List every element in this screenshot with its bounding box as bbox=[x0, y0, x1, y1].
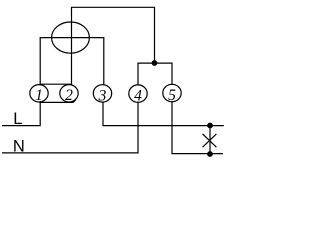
svg-text:L: L bbox=[13, 110, 22, 128]
svg-text:5: 5 bbox=[168, 87, 176, 104]
svg-text:4: 4 bbox=[134, 87, 142, 104]
svg-text:2: 2 bbox=[65, 87, 73, 104]
svg-text:1: 1 bbox=[35, 87, 43, 104]
svg-text:3: 3 bbox=[98, 87, 107, 104]
svg-text:N: N bbox=[13, 138, 25, 156]
